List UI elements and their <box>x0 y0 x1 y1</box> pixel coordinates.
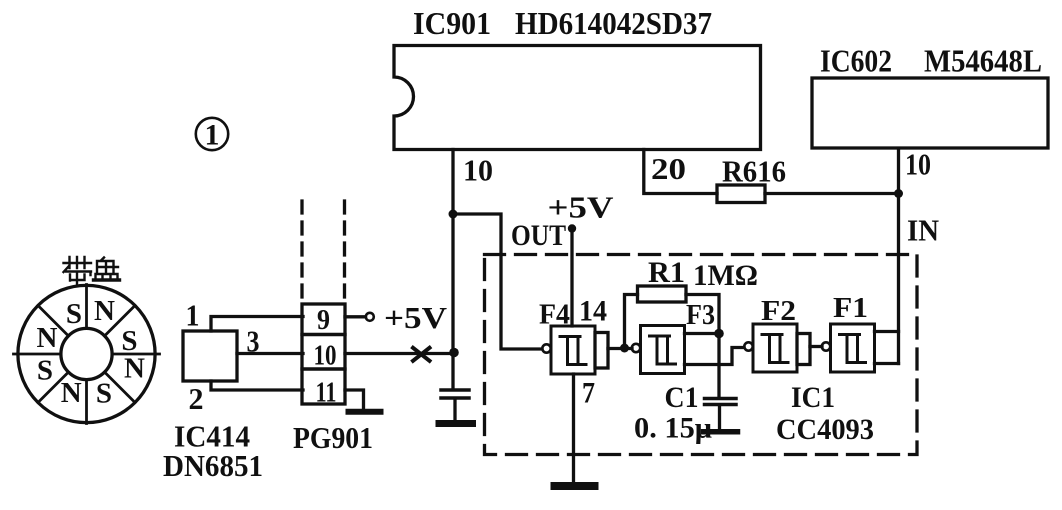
svg-text:10: 10 <box>905 147 931 182</box>
svg-text:IC602: IC602 <box>820 43 892 79</box>
wire R1 right leg <box>686 295 719 334</box>
wire IC414 pin 1 <box>211 317 303 332</box>
svg-text:R1: R1 <box>648 256 685 289</box>
wire R616 to IC602 pin 10 <box>765 192 899 195</box>
wire PG901 dashed top right <box>343 201 346 303</box>
svg-text:R616: R616 <box>722 154 786 189</box>
wire IC414 pin 3 <box>237 352 303 355</box>
svg-text:F3: F3 <box>686 299 715 331</box>
ring spokes <box>14 285 160 424</box>
magnet ring tape reel outer <box>18 285 155 422</box>
wire F4 pin 7 <box>572 374 575 482</box>
wire +5V to F4 pin 14 <box>570 229 573 327</box>
svg-text:F2: F2 <box>761 295 796 327</box>
wire F3 feedback <box>685 332 720 335</box>
ground F4 pin 7 <box>555 482 595 490</box>
label circled 1 <box>196 118 228 152</box>
ring pole letters <box>37 295 146 409</box>
wire F4 output to F3 input <box>608 347 632 350</box>
svg-text:10: 10 <box>314 341 337 372</box>
svg-text:DN6851: DN6851 <box>163 448 263 483</box>
dashed box IC1 CC4093 <box>485 255 918 455</box>
svg-text:M54648L: M54648L <box>924 43 1042 79</box>
resistor R616 <box>717 185 765 203</box>
svg-text:2: 2 <box>189 381 204 416</box>
magnet ring inner <box>61 328 112 379</box>
gate F2 <box>744 324 797 372</box>
node +5V terminal dot <box>568 224 576 232</box>
node +5V open terminal <box>366 313 374 321</box>
wire filter cap bottom <box>453 399 456 419</box>
svg-text:C1: C1 <box>665 381 699 414</box>
IC U901 IC901 body <box>394 46 761 150</box>
label dai pan (tape reel) <box>64 257 120 284</box>
svg-text:+5V: +5V <box>384 300 448 335</box>
IC414 body <box>183 331 237 381</box>
svg-text:N: N <box>61 377 82 409</box>
svg-text:S: S <box>66 298 82 330</box>
node junction pin10 upper <box>449 210 458 219</box>
svg-text:N: N <box>94 295 115 327</box>
svg-text:1: 1 <box>205 119 220 152</box>
wire IC602 pin 10 <box>897 149 900 194</box>
ground PG901 pin 11 <box>349 409 381 415</box>
wire IC901 pin10 to F4 input <box>453 214 542 349</box>
connector PG901 box 9 <box>302 304 345 335</box>
svg-text:14: 14 <box>579 295 607 328</box>
gate F2 output stub <box>797 334 810 365</box>
wire PG901 dashed top left <box>300 201 303 303</box>
gate F1 <box>822 324 875 372</box>
svg-text:+5V: +5V <box>548 190 615 225</box>
svg-text:HD614042SD37: HD614042SD37 <box>515 5 712 41</box>
svg-text:F4: F4 <box>539 299 570 331</box>
svg-text:PG901: PG901 <box>293 420 373 455</box>
svg-text:CC4093: CC4093 <box>776 413 874 446</box>
svg-text:IC1: IC1 <box>791 381 835 414</box>
capacitor filter plates <box>441 390 469 398</box>
gate F4 output stub <box>595 333 608 369</box>
node F3 input junction <box>620 344 629 353</box>
wire C1 bottom <box>718 406 721 429</box>
wire C1 top <box>717 334 720 398</box>
ground filter cap <box>439 420 473 427</box>
wire F3 output to F2 <box>685 348 745 365</box>
connector PG901 box 11 <box>302 369 345 404</box>
wire F1 output stub top <box>875 330 899 333</box>
svg-text:IN: IN <box>907 213 939 248</box>
node R1 / C1 junction <box>714 329 724 339</box>
wire IC901 pin 10 vertical rail <box>451 150 454 389</box>
IC602 body <box>812 78 1048 148</box>
svg-text:10: 10 <box>463 153 493 188</box>
capacitor C1 <box>705 399 737 405</box>
ground C1 <box>704 429 738 435</box>
node junction R616 / IC602 pin 10 <box>894 189 903 198</box>
wire R1 left leg <box>625 295 638 349</box>
connector PG901 box 10 <box>302 335 345 370</box>
svg-text:1: 1 <box>186 298 200 333</box>
svg-text:N: N <box>37 322 58 354</box>
wire IC414 pin 2 <box>211 381 303 390</box>
svg-text:0. 15μ: 0. 15μ <box>634 412 712 445</box>
wire F2 output to F1 <box>810 345 822 348</box>
svg-text:N: N <box>124 353 145 385</box>
svg-text:IC901: IC901 <box>413 5 491 41</box>
svg-text:1MΩ: 1MΩ <box>693 259 758 292</box>
wire IC901 pin 20 <box>644 150 717 194</box>
gate F4 <box>542 326 595 374</box>
svg-text:7: 7 <box>582 377 595 410</box>
wire PG901 pin 10 <box>345 352 451 355</box>
svg-text:9: 9 <box>317 305 330 336</box>
crossing mark X <box>413 348 430 361</box>
wire net IN vertical <box>897 194 900 364</box>
resistor R1 <box>638 286 687 302</box>
svg-text:11: 11 <box>316 378 337 409</box>
svg-text:S: S <box>96 377 112 409</box>
svg-text:F1: F1 <box>833 292 868 324</box>
wire PG901 pin 9 <box>345 315 366 318</box>
gate F3 <box>632 326 685 374</box>
node junction pin10 rail <box>449 348 459 358</box>
wire PG901 pin 11 <box>345 390 364 408</box>
wire F1 output stub bottom <box>875 362 899 365</box>
svg-text:S: S <box>37 355 53 387</box>
svg-text:20: 20 <box>651 151 686 186</box>
